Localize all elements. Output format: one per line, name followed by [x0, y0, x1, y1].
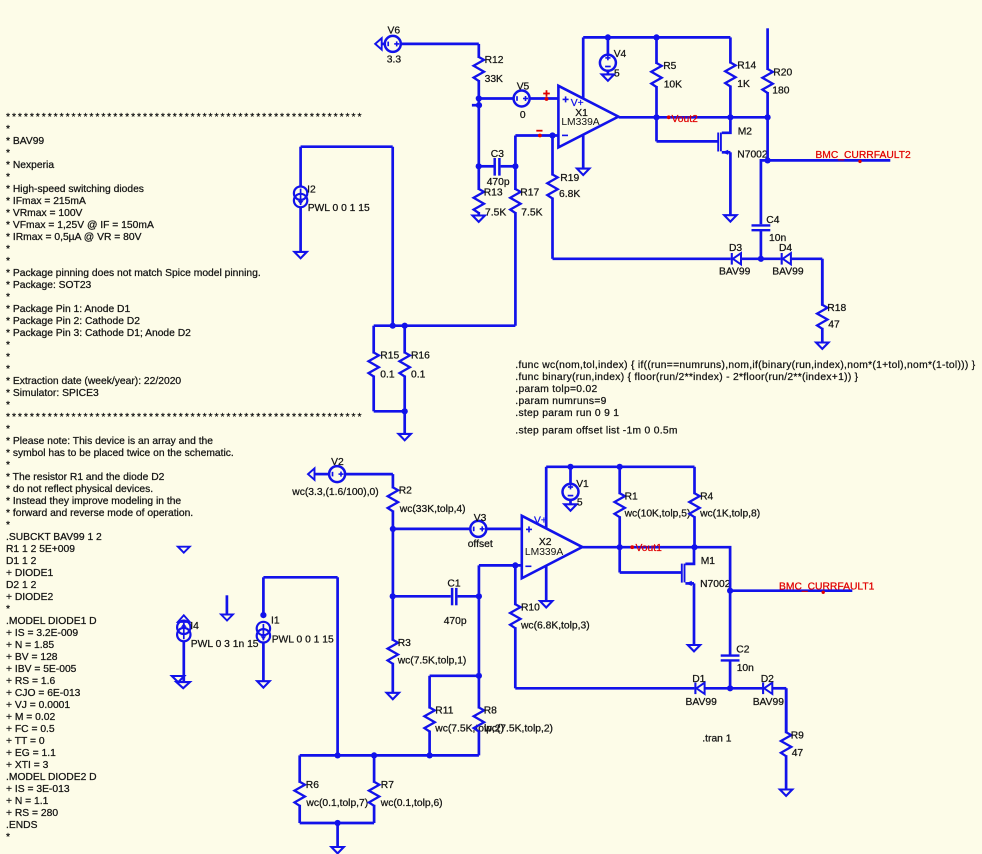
svg-text:3.3: 3.3 [387, 55, 402, 66]
svg-text:+ CJO = 6E-013: + CJO = 6E-013 [6, 688, 81, 699]
svg-text:* The resistor R1 and the diod: * The resistor R1 and the diode D2 [6, 472, 165, 483]
svg-text:*: * [6, 292, 10, 303]
svg-text:D4: D4 [779, 243, 792, 254]
svg-text:+ RS = 1.6: + RS = 1.6 [6, 676, 56, 687]
svg-text:.MODEL DIODE2 D: .MODEL DIODE2 D [6, 772, 97, 783]
svg-text:* Package: SOT23: * Package: SOT23 [6, 280, 92, 291]
svg-text:wc(7.5K,tolp,1): wc(7.5K,tolp,1) [397, 656, 467, 667]
svg-text:.param tolp=0.02: .param tolp=0.02 [515, 384, 597, 395]
svg-text:*: * [6, 148, 10, 159]
svg-text:* Package Pin 1: Anode D1: * Package Pin 1: Anode D1 [6, 304, 130, 315]
svg-text:.param numruns=9: .param numruns=9 [515, 396, 606, 407]
svg-text:+ DIODE1: + DIODE1 [6, 568, 53, 579]
svg-text:+ XTI = 3: + XTI = 3 [6, 760, 49, 771]
svg-text:7.5K: 7.5K [521, 207, 542, 218]
svg-text:* High-speed switching diodes: * High-speed switching diodes [6, 184, 144, 195]
svg-text:.SUBCKT BAV99 1 2: .SUBCKT BAV99 1 2 [6, 532, 102, 543]
svg-text:.ENDS: .ENDS [6, 820, 38, 831]
svg-text:R15: R15 [380, 351, 399, 362]
svg-text:*: * [6, 520, 10, 531]
svg-text:* VRmax = 100V: * VRmax = 100V [6, 208, 83, 219]
svg-text:PWL 0 3 1n 15: PWL 0 3 1n 15 [191, 639, 259, 650]
svg-text:.step param offset list -1m 0: .step param offset list -1m 0 0.5m [515, 425, 677, 436]
svg-text:D2 1 2: D2 1 2 [6, 580, 37, 591]
svg-text:wc(7.5K,tolp,2): wc(7.5K,tolp,2) [483, 724, 553, 735]
svg-text:+ N = 1.1: + N = 1.1 [6, 796, 49, 807]
svg-text:* Package Pin 2: Cathode D2: * Package Pin 2: Cathode D2 [6, 316, 140, 327]
svg-text:* Please note: This device is: * Please note: This device is an array a… [6, 436, 213, 447]
svg-text:R1 1 2 5E+009: R1 1 2 5E+009 [6, 544, 75, 555]
svg-text:.tran 1: .tran 1 [702, 734, 731, 745]
svg-text:D1: D1 [692, 674, 705, 685]
svg-text:I4: I4 [190, 621, 199, 632]
svg-text:* BAV99: * BAV99 [6, 136, 44, 147]
svg-text:.step param run 0 9 1: .step param run 0 9 1 [515, 408, 619, 419]
svg-text:* Simulator: SPICE3: * Simulator: SPICE3 [6, 388, 99, 399]
svg-text:* Nexperia: * Nexperia [6, 160, 54, 171]
svg-text:* Package Pin 3: Cathode D1; A: * Package Pin 3: Cathode D1; Anode D2 [6, 328, 191, 339]
svg-text:1K: 1K [737, 79, 750, 90]
svg-text:R8: R8 [484, 706, 497, 717]
svg-text:10n: 10n [737, 663, 754, 674]
svg-text:R14: R14 [737, 61, 756, 72]
svg-text:******************************: ****************************************… [6, 412, 363, 423]
svg-text:R19: R19 [560, 173, 579, 184]
svg-text:+ IS = 3E-013: + IS = 3E-013 [6, 784, 70, 795]
svg-text:BAV99: BAV99 [753, 697, 785, 708]
svg-text:*: * [6, 256, 10, 267]
svg-text:*: * [6, 400, 10, 411]
svg-text:R17: R17 [520, 187, 539, 198]
svg-text:10K: 10K [664, 80, 682, 91]
svg-text:+ TT = 0: + TT = 0 [6, 736, 45, 747]
svg-text:*: * [6, 352, 10, 363]
svg-text:N7002: N7002 [700, 579, 731, 590]
svg-text:BAV99: BAV99 [719, 267, 751, 278]
svg-text:Vout1: Vout1 [636, 543, 663, 554]
svg-text:R2: R2 [399, 486, 412, 497]
svg-text:wc(3.3,(1.6/100),0): wc(3.3,(1.6/100),0) [291, 487, 378, 498]
svg-text:+ EG = 1.1: + EG = 1.1 [6, 748, 56, 759]
svg-text:* do not reflect physical devi: * do not reflect physical devices. [6, 484, 153, 495]
svg-text:*: * [6, 124, 10, 135]
svg-text:V2: V2 [331, 457, 344, 468]
svg-text:wc(6.8K,tolp,3): wc(6.8K,tolp,3) [520, 620, 590, 631]
svg-text:V4: V4 [614, 49, 627, 60]
svg-text:R18: R18 [827, 303, 846, 314]
svg-text:+ N = 1.85: + N = 1.85 [6, 640, 54, 651]
svg-text:wc(0.1,tolp,6): wc(0.1,tolp,6) [380, 798, 443, 809]
svg-text:*: * [6, 364, 10, 375]
svg-text:* IRmax = 0,5µA @ VR = 80V: * IRmax = 0,5µA @ VR = 80V [6, 232, 142, 243]
svg-text:D2: D2 [761, 674, 774, 685]
svg-text:I2: I2 [307, 185, 316, 196]
svg-text:R20: R20 [773, 67, 792, 78]
svg-text:* VFmax = 1,25V @ IF = 150mA: * VFmax = 1,25V @ IF = 150mA [6, 220, 154, 231]
svg-text:Vout2: Vout2 [672, 114, 699, 125]
svg-text:V5: V5 [517, 81, 530, 92]
svg-text:* Extraction date (week/year):: * Extraction date (week/year): 22/2020 [6, 376, 181, 387]
svg-text:R16: R16 [411, 351, 430, 362]
svg-text:*: * [6, 340, 10, 351]
svg-text:7.5K: 7.5K [485, 207, 506, 218]
svg-text:M2: M2 [738, 126, 753, 137]
svg-text:R13: R13 [484, 187, 503, 198]
svg-text:R5: R5 [663, 61, 676, 72]
svg-text:33K: 33K [485, 74, 503, 85]
svg-text:D1 1 2: D1 1 2 [6, 556, 37, 567]
svg-text:.MODEL DIODE1 D: .MODEL DIODE1 D [6, 616, 97, 627]
svg-text:PWL 0 0 1 15: PWL 0 0 1 15 [272, 635, 334, 646]
svg-text:.func binary(run,index) { floo: .func binary(run,index) { floor(run/2**i… [515, 372, 858, 383]
svg-text:R1: R1 [625, 491, 638, 502]
svg-text:D3: D3 [729, 243, 742, 254]
svg-text:R11: R11 [435, 706, 453, 717]
svg-text:*: * [6, 832, 10, 843]
svg-text:+ RS = 280: + RS = 280 [6, 808, 58, 819]
svg-text:M1: M1 [701, 556, 716, 567]
svg-text:BAV99: BAV99 [686, 697, 718, 708]
svg-text:R9: R9 [791, 730, 804, 741]
svg-text:6.8K: 6.8K [559, 189, 580, 200]
svg-text:+ IBV = 5E-005: + IBV = 5E-005 [6, 664, 77, 675]
svg-text:47: 47 [792, 748, 804, 759]
svg-text:*: * [6, 172, 10, 183]
svg-text:+ VJ = 0.0001: + VJ = 0.0001 [6, 700, 70, 711]
svg-text:BMC_CURRFAULT1: BMC_CURRFAULT1 [779, 581, 875, 592]
svg-text:*: * [6, 424, 10, 435]
svg-text:* Instead they improve modelin: * Instead they improve modeling in the [6, 496, 181, 507]
svg-text:R7: R7 [381, 780, 394, 791]
svg-text:R10: R10 [521, 602, 540, 613]
svg-text:47: 47 [828, 320, 840, 331]
svg-text:+ FC = 0.5: + FC = 0.5 [6, 724, 55, 735]
svg-text:+ IS = 3.2E-009: + IS = 3.2E-009 [6, 628, 78, 639]
svg-text:*: * [6, 604, 10, 615]
svg-text:5: 5 [614, 69, 620, 80]
svg-text:******************************: ****************************************… [6, 112, 363, 123]
svg-text:I1: I1 [271, 616, 280, 627]
svg-text:BMC_CURRFAULT2: BMC_CURRFAULT2 [815, 150, 911, 161]
svg-text:LM339A: LM339A [525, 547, 563, 558]
svg-text:*: * [6, 460, 10, 471]
svg-text:180: 180 [772, 86, 789, 97]
svg-text:470p: 470p [487, 177, 510, 188]
svg-text:V1: V1 [576, 479, 589, 490]
svg-text:0.1: 0.1 [411, 370, 426, 381]
svg-text:C1: C1 [447, 579, 460, 590]
svg-text:* forward and reverse mode of: * forward and reverse mode of operation. [6, 508, 193, 519]
svg-text:R4: R4 [700, 491, 713, 502]
svg-text:+ M = 0.02: + M = 0.02 [6, 712, 56, 723]
svg-text:C3: C3 [491, 149, 504, 160]
svg-text:0.1: 0.1 [380, 370, 395, 381]
svg-text:PWL 0 0 1 15: PWL 0 0 1 15 [308, 203, 370, 214]
svg-text:V3: V3 [474, 513, 487, 524]
svg-text:wc(0.1,tolp,7): wc(0.1,tolp,7) [305, 798, 368, 809]
svg-text:* Package pinning does not mat: * Package pinning does not match Spice m… [6, 268, 261, 279]
svg-text:C2: C2 [736, 645, 749, 656]
svg-text:LM339A: LM339A [561, 117, 599, 128]
svg-text:offset: offset [468, 539, 493, 550]
svg-text:C4: C4 [766, 215, 779, 226]
svg-text:+ BV = 128: + BV = 128 [6, 652, 58, 663]
svg-text:R12: R12 [485, 55, 504, 66]
svg-text:+ DIODE2: + DIODE2 [6, 592, 53, 603]
svg-text:.func wc(nom,tol,index) { if((: .func wc(nom,tol,index) { if((run==numru… [515, 360, 975, 371]
svg-text:0: 0 [520, 110, 526, 121]
svg-text:wc(33K,tolp,4): wc(33K,tolp,4) [399, 504, 466, 515]
svg-text:5: 5 [577, 497, 583, 508]
svg-text:* IFmax = 215mA: * IFmax = 215mA [6, 196, 86, 207]
svg-text:470p: 470p [444, 616, 467, 627]
svg-text:V6: V6 [388, 25, 401, 36]
svg-text:*: * [6, 244, 10, 255]
svg-text:wc(10K,tolp,5): wc(10K,tolp,5) [624, 509, 691, 520]
svg-text:wc(1K,tolp,8): wc(1K,tolp,8) [699, 509, 760, 520]
svg-text:R3: R3 [398, 638, 411, 649]
svg-text:* symbol has to be placed twic: * symbol has to be placed twice on the s… [6, 448, 234, 459]
svg-text:R6: R6 [306, 780, 319, 791]
svg-text:BAV99: BAV99 [772, 267, 804, 278]
